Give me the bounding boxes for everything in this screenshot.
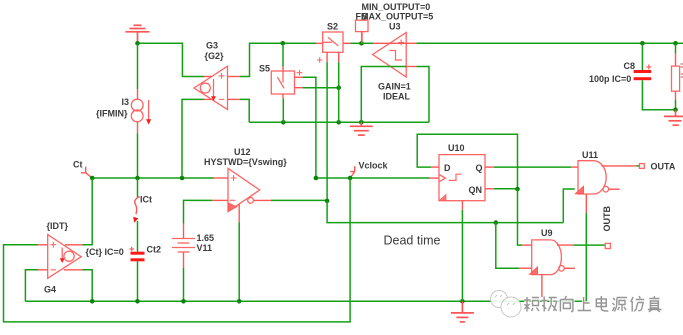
- terminal OUTB port square: [605, 243, 610, 248]
- switch S5: [271, 67, 302, 99]
- svg-text:1.65: 1.65: [197, 233, 215, 243]
- node junction dead-time to U9: [494, 220, 499, 225]
- wire dead-time up to U11 lower input: [563, 189, 575, 223]
- svg-text:U9: U9: [541, 228, 553, 238]
- wire U11 output to OUTA port: [636, 165, 639, 167]
- svg-text:HYSTWD={Vswing}: HYSTWD={Vswing}: [204, 157, 287, 167]
- watermark logo bubbles: [491, 291, 522, 318]
- svg-text:I3: I3: [122, 97, 130, 107]
- svg-text:OUTA: OUTA: [651, 162, 676, 172]
- node junction rail/G4: [90, 299, 95, 304]
- wire dead-time branch to U9 lower input: [496, 223, 519, 269]
- node junction Ct/Ct2: [135, 176, 140, 181]
- wire S5 plus pin down to Vclock line: [303, 77, 316, 178]
- svg-text:D: D: [444, 163, 451, 173]
- node junction Vclock stem: [348, 176, 353, 181]
- wire bottom rail: [25, 300, 585, 302]
- svg-text:U10: U10: [448, 143, 465, 153]
- wire S5 top pin to top rail: [282, 43, 284, 66]
- node junction rail/V11: [181, 299, 186, 304]
- wire U3 output to right edge: [416, 42, 683, 44]
- node junction at S2 branch / S5 pin2: [336, 85, 341, 90]
- wire S2 bottom-right pin down through junction to mid rail: [338, 62, 340, 122]
- wire U12 bottom pin to bottom rail: [238, 222, 240, 301]
- comparator U12 (HYSTWD): [212, 168, 271, 222]
- svg-text:V11: V11: [197, 243, 213, 253]
- wire U3 lower right loop: [416, 67, 429, 123]
- ground G5 bottom center: [451, 301, 474, 322]
- svg-text:GAIN=1: GAIN=1: [378, 82, 411, 92]
- wire C8 bottom lead to R bottom node: [642, 80, 675, 110]
- ground G2 below GAIN loop: [350, 122, 373, 135]
- wire G4 minus-in down to bottom rail: [25, 270, 38, 302]
- wire U12 output to S2 control node: [271, 199, 327, 201]
- wire U10 Q to U11 input: [494, 166, 571, 168]
- wire top rail to S2 left pin: [283, 42, 316, 44]
- svg-text:{IFMIN}: {IFMIN}: [96, 109, 128, 119]
- node junction rail/U12: [237, 299, 242, 304]
- D flip-flop U10: [430, 155, 494, 210]
- wire mid rail y=122 to GAIN loop: [249, 121, 429, 123]
- wire FB node to U3 plus input: [362, 42, 374, 44]
- wire U12 minus input to V11: [184, 200, 213, 223]
- node junction Ct/G3: [180, 176, 185, 181]
- wire Ct2 bottom to bottom rail: [137, 261, 139, 301]
- node junction U12 output / S2 control: [325, 199, 330, 204]
- node FB junction: [359, 41, 364, 46]
- node junction Vclock/S5: [314, 176, 319, 181]
- node junction QN/loop: [515, 187, 520, 192]
- svg-text:{Ct} IC=0: {Ct} IC=0: [86, 247, 124, 257]
- wire S5 pin2 to S2 branch junction: [303, 87, 339, 89]
- node junction Ct/G4: [90, 176, 95, 181]
- svg-text:U12: U12: [234, 147, 251, 157]
- svg-text:{G2}: {G2}: [205, 51, 225, 61]
- wire U11 bottom pin to bottom rail: [585, 213, 587, 301]
- wire Vclock line U12 out row to U10 clk: [316, 177, 430, 179]
- svg-text:{IDT}: {IDT}: [47, 221, 69, 231]
- wire I3 top lead: [137, 43, 139, 89]
- svg-text:U11: U11: [582, 150, 598, 160]
- svg-text:Ct2: Ct2: [147, 244, 162, 254]
- wire S2 bottom-left pin down to U12 output node: [326, 62, 328, 201]
- label R (cut off at edge): [681, 64, 683, 77]
- svg-text:100p IC=0: 100p IC=0: [589, 74, 631, 84]
- wire S5 bottom pin to mid rail: [282, 98, 284, 122]
- svg-text:S5: S5: [259, 64, 270, 74]
- current source I3: [131, 89, 151, 133]
- VCCS G4 (triangle pointing right): [38, 235, 82, 279]
- battery V11: [172, 224, 195, 269]
- wire C8 top lead: [641, 43, 643, 70]
- wire G4 out- down to bottom rail: [83, 270, 93, 302]
- node Vclock pin marker: [350, 166, 355, 178]
- node Ct pin marker: [81, 167, 92, 178]
- svg-text:Ct: Ct: [73, 160, 83, 170]
- ground G6 right edge: [664, 110, 683, 125]
- wire G3 minus-in down to mid rail: [240, 99, 249, 122]
- node junction R top: [673, 41, 678, 46]
- wire G4 out+ up to Ct node: [83, 178, 93, 245]
- node junction ground on mid rail: [359, 120, 364, 125]
- resistor R right edge: [672, 53, 680, 100]
- node junction rail/ground: [460, 299, 465, 304]
- wire V11 bottom to bottom rail: [183, 268, 185, 301]
- wire G3 plus-in up to top rail: [240, 43, 283, 76]
- svg-text:Dead time: Dead time: [384, 233, 441, 247]
- capacitor C8: [634, 65, 652, 81]
- wire Ct horizontal line to U12 plus: [92, 177, 214, 179]
- svg-text:S2: S2: [327, 22, 338, 32]
- wire Ct down to ICt arrow: [137, 178, 139, 198]
- wire G3 minus-out to Ct line (down at x=182): [182, 99, 204, 178]
- svg-text:U3: U3: [389, 22, 401, 32]
- wire U10 QN to loop node: [494, 188, 518, 190]
- wire R bottom lead: [675, 100, 677, 110]
- capacitor Ct2: [129, 247, 144, 262]
- wire QN node down to U9 top input: [518, 189, 523, 245]
- wire I3 bottom lead to Ct node: [137, 133, 139, 178]
- node junction at ground/I3: [135, 41, 140, 46]
- nand gate U9: [519, 240, 575, 297]
- svg-text:MAX_OUTPUT=5: MAX_OUTPUT=5: [361, 11, 433, 21]
- wire U10 D feedback loop from QN: [417, 134, 517, 189]
- wire U3 lower pin loop around GAIN label: [361, 67, 406, 123]
- node junction S5 bottom on mid rail: [281, 120, 286, 125]
- ground G1 top-left (flipped, bars above stem): [126, 25, 150, 43]
- svg-text:ICt: ICt: [140, 195, 152, 205]
- svg-text:OUTB: OUTB: [602, 206, 612, 232]
- pin FB stem: [361, 32, 363, 44]
- wire R top lead: [675, 43, 677, 53]
- VCCS G3 (triangle pointing left): [194, 66, 240, 109]
- node junction C8 top: [640, 41, 645, 46]
- wire ICt to Ct2 top plate: [137, 221, 139, 252]
- wire U10 bottom pin to bottom rail: [461, 210, 463, 301]
- wire Vclock down to bottom loop: [4, 178, 351, 322]
- svg-text:G3: G3: [206, 41, 218, 51]
- op-amp comparator U3 (triangle pointing left): [373, 32, 417, 77]
- node junction R bottom / ground: [673, 108, 678, 113]
- nand gate U11: [571, 161, 636, 213]
- current arrow ICt: [135, 197, 140, 215]
- svg-text:Q: Q: [476, 163, 483, 173]
- wire S2 right pin to FB node: [351, 42, 362, 44]
- svg-text:Vclock: Vclock: [359, 161, 389, 171]
- terminal FB port square: [356, 20, 369, 31]
- terminal OUTA port square: [640, 164, 645, 169]
- svg-text:G4: G4: [44, 285, 56, 295]
- node junction S2 branch on mid rail: [336, 120, 341, 125]
- svg-text:IDEAL: IDEAL: [383, 92, 411, 102]
- wire top rail left: ground to G3 input corner: [138, 43, 205, 76]
- svg-text:QN: QN: [469, 185, 483, 195]
- watermark text 积极向上电源仿真: [524, 296, 661, 312]
- wire dead-time tap down from U12 output node: [327, 201, 563, 223]
- node junction above S5: [281, 41, 286, 46]
- svg-text:C8: C8: [624, 61, 636, 71]
- switch S2: [316, 32, 350, 63]
- node junction rail/Ct2: [135, 299, 140, 304]
- wire U9 output to OUTB port: [574, 244, 606, 246]
